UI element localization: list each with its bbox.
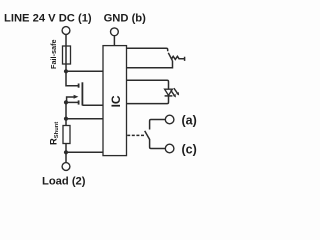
- svg-text:GND (b): GND (b): [104, 12, 147, 24]
- svg-text:(a): (a): [182, 113, 197, 127]
- wire resistor to node D and Load terminal: [65, 144, 67, 163]
- IC U1 box: [103, 46, 127, 156]
- transistor Q1 source contact bar: [78, 100, 80, 104]
- wire node D to IC pin: [66, 151, 103, 153]
- wire IC pin to thermal switch fixed contact: [127, 48, 168, 51]
- relay contact blade: [145, 131, 150, 140]
- terminal LINE (1): [62, 27, 70, 35]
- transistor Q1 source lead: [66, 101, 78, 103]
- wire thermal switch to IC pin: [127, 61, 173, 68]
- svg-text:RShunt: RShunt: [47, 122, 60, 145]
- transistor Q1 body arrow: [67, 97, 76, 102]
- svg-text:LINE 24 V DC (1): LINE 24 V DC (1): [4, 12, 92, 24]
- wire node A to IC pin: [66, 70, 103, 72]
- dashed actuator link from IC to relay contact: [127, 134, 144, 136]
- resistor R_Shunt body: [63, 126, 70, 144]
- svg-text:Fail-safe: Fail-safe: [49, 39, 58, 69]
- wire LINE terminal to fuse: [65, 35, 67, 47]
- terminal GND (b): [111, 28, 119, 36]
- wire contact c terminal: [150, 140, 166, 149]
- node B junction dot: [64, 100, 68, 104]
- wire GND terminal to IC top: [113, 36, 115, 46]
- LED D1 cathode bar: [165, 95, 173, 97]
- fuse F1 fail-safe body: [63, 46, 71, 64]
- terminal (a): [165, 115, 174, 124]
- fuse F1 wire through: [65, 46, 67, 64]
- thermal switch heater squiggle: [171, 56, 184, 61]
- wire node B down to node C: [65, 102, 67, 125]
- terminal Load (2): [62, 163, 70, 171]
- LED D1 triangle: [165, 89, 173, 95]
- transistor Q1 gate bar: [81, 82, 83, 105]
- wire contact a terminal: [150, 120, 166, 130]
- node D junction dot: [64, 150, 68, 154]
- svg-text:(c): (c): [182, 142, 197, 156]
- transistor Q1 drain contact bar: [78, 84, 80, 88]
- LED D1 emission arrow 2: [174, 88, 178, 93]
- wire LED cathode to IC pin: [127, 96, 169, 104]
- node A junction dot: [64, 69, 68, 73]
- svg-text:Load (2): Load (2): [42, 176, 86, 188]
- wire IC pin to LED anode: [127, 80, 169, 89]
- LED D1 emission arrow 1: [171, 90, 175, 95]
- thermal switch blade: [168, 53, 172, 61]
- wire node C to IC pin: [66, 118, 103, 120]
- transistor Q1 gate lead to IC: [82, 104, 103, 106]
- node C junction dot: [64, 117, 68, 121]
- wire fuse to node A and down to drain lead: [66, 64, 78, 86]
- svg-text:IC: IC: [109, 95, 123, 107]
- terminal (c): [165, 144, 174, 153]
